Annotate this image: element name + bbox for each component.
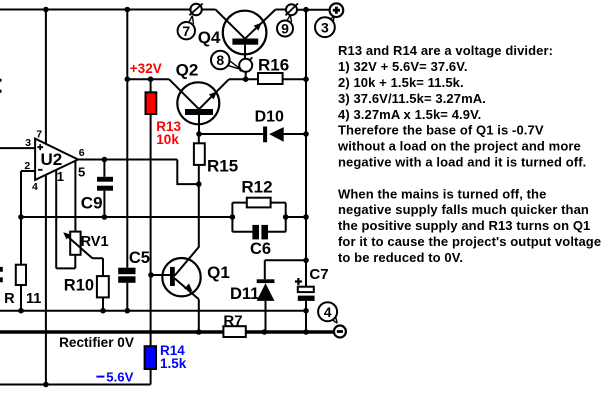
- svg-text:3: 3: [25, 137, 31, 149]
- resistor R16: [258, 73, 283, 84]
- node R10 0V: [100, 308, 106, 314]
- node R16 rail: [303, 76, 309, 82]
- node Q1 base: [148, 272, 154, 278]
- svg-text:+32V: +32V: [130, 61, 162, 76]
- wire R10 bottom lead: [102, 297, 104, 310]
- node pin2 R11: [18, 214, 24, 220]
- balloon 4: [318, 302, 337, 321]
- resistor R11: [16, 265, 26, 285]
- wire U2 pin6 output: [78, 160, 199, 185]
- label -5.6V: [96, 376, 104, 378]
- wire D10 left: [199, 133, 263, 135]
- terminal plus output: [330, 3, 344, 17]
- clipped capacitor left edge: [0, 269, 3, 280]
- wire Q1 emitter diagonal: [175, 279, 199, 300]
- svg-text:7: 7: [182, 23, 190, 39]
- svg-text:R7: R7: [223, 313, 242, 330]
- resistor R15: [194, 143, 205, 165]
- svg-text:Therefore the base of Q1 is -0: Therefore the base of Q1 is -0.7V: [338, 123, 544, 138]
- note text block: [337, 43, 601, 265]
- resistor R7: [223, 326, 245, 337]
- wire RV1 wiper to R10: [92, 258, 103, 276]
- svg-text:C5: C5: [129, 249, 150, 267]
- node feedback rail: [303, 214, 309, 220]
- node rail corner: [303, 329, 309, 335]
- node pin4 -rail: [43, 382, 49, 388]
- svg-text:D10: D10: [255, 108, 284, 125]
- resistor R14 1.5k: [145, 346, 156, 369]
- wire C5 bottom lead: [126, 283, 128, 311]
- svg-text:7: 7: [36, 128, 42, 140]
- wire TP7 to Q4: [202, 9, 216, 11]
- svg-text:Q4: Q4: [198, 28, 221, 47]
- wire C7 to D11: [265, 260, 306, 279]
- terminal minus output: [334, 326, 346, 338]
- diode D10: [263, 127, 284, 143]
- node dots: [18, 7, 309, 388]
- svg-text:4) 3.27mA x 1.5k= 4.9V.: 4) 3.27mA x 1.5k= 4.9V.: [338, 107, 481, 122]
- svg-text:5: 5: [78, 165, 85, 180]
- node C9 bottom: [102, 214, 108, 220]
- svg-text:6: 6: [79, 147, 85, 159]
- wire +32V left rail: [126, 10, 128, 268]
- node Q2 base D10: [196, 131, 202, 137]
- svg-text:Rectifier 0V: Rectifier 0V: [59, 335, 134, 350]
- svg-text:5.6V: 5.6V: [106, 369, 133, 384]
- svg-text:2) 10k + 1.5k= 11.5k.: 2) 10k + 1.5k= 11.5k.: [338, 75, 464, 90]
- svg-text:C7: C7: [309, 266, 328, 283]
- svg-text:negative with a load and it is: negative with a load and it is turned of…: [338, 155, 586, 170]
- node Q4 base R16: [243, 76, 249, 82]
- svg-text:1.5k: 1.5k: [160, 356, 187, 371]
- wire Q4 base lead: [244, 45, 246, 59]
- balloon 7: [178, 22, 195, 39]
- svg-text:R15: R15: [207, 156, 238, 175]
- node D10 rail: [303, 131, 309, 137]
- svg-text:When the mains is turned off,: When the mains is turned off, the: [338, 186, 546, 201]
- resistor R13 10k: [146, 92, 157, 114]
- svg-text:9: 9: [281, 21, 289, 37]
- wire TP8 to node: [245, 72, 247, 79]
- wire feedback line pin2: [21, 216, 232, 218]
- wire D11 anode lead: [265, 301, 267, 332]
- svg-text:2: 2: [24, 160, 30, 172]
- wire R11 leads: [20, 217, 22, 311]
- capacitor C9: [97, 177, 113, 191]
- node D11 rail: [262, 329, 268, 335]
- svg-text:the positive supply and R13 tu: the positive supply and R13 turns on Q1: [338, 218, 590, 233]
- wire U2 pin4 to -rail: [45, 175, 47, 385]
- wire Q1 base: [151, 274, 170, 276]
- op-amp plus minus: [37, 144, 43, 170]
- svg-text:negative supply falls much qui: negative supply falls much quicker than: [338, 202, 589, 217]
- svg-text:RV1: RV1: [81, 234, 109, 250]
- capacitor C6: [252, 225, 268, 240]
- svg-text:4: 4: [324, 304, 332, 320]
- wire U2 pin2 input: [21, 171, 35, 217]
- wire Q2 right lead diagonal: [199, 79, 229, 109]
- wire R12 C6 frame: [232, 203, 285, 232]
- svg-text:R13 and R14 are a voltage divi: R13 and R14 are a voltage divider:: [338, 43, 553, 58]
- wire Q4 right lead diagonal: [245, 10, 286, 39]
- balloon 3: [315, 17, 335, 37]
- clipped part left edge top: [0, 80, 2, 91]
- terminal point TP7: [190, 4, 201, 15]
- svg-text:8: 8: [216, 52, 224, 68]
- svg-text:R: R: [4, 291, 15, 307]
- wire R15 leads: [198, 134, 200, 184]
- svg-text:3: 3: [321, 19, 329, 35]
- svg-text:10k: 10k: [156, 132, 179, 147]
- svg-text:for it to cause the project's: for it to cause the project's output vol…: [338, 234, 601, 249]
- svg-text:1) 32V + 5.6V= 37.6V.: 1) 32V + 5.6V= 37.6V.: [338, 59, 468, 74]
- node R12 left: [230, 214, 236, 220]
- svg-text:Q2: Q2: [176, 60, 199, 79]
- wire top +rail: [0, 9, 190, 11]
- svg-text:C6: C6: [250, 240, 271, 258]
- wire U2 pin7 supply: [45, 10, 47, 144]
- node rail right top: [303, 7, 309, 13]
- transistor Q2: [177, 82, 219, 124]
- wire U2 pin1 to RV1 bottom: [56, 170, 75, 269]
- wire Q1 emitter to 0V rail: [198, 299, 200, 332]
- svg-text:R12: R12: [241, 178, 272, 197]
- balloon 9: [277, 21, 293, 37]
- node C7 branch: [303, 258, 309, 264]
- wire rectifier 0V rail: [0, 330, 334, 333]
- node +32V rail top: [125, 7, 131, 13]
- wire U2 pin5 to RV1 top: [74, 161, 76, 232]
- node pin7 rail top: [43, 7, 49, 13]
- wire TP9 to terminal 3: [297, 9, 330, 11]
- terminal point TP8: [240, 57, 253, 71]
- wire D10 right: [284, 133, 306, 135]
- wire R13 to Q1 base node: [150, 114, 152, 275]
- diode D11: [257, 279, 275, 301]
- wire node to R14: [150, 275, 152, 346]
- svg-text:to be reduced to 0V.: to be reduced to 0V.: [338, 250, 463, 265]
- wire R13 top lead: [150, 79, 152, 92]
- svg-text:3) 37.6V/11.5k= 3.27mA.: 3) 37.6V/11.5k= 3.27mA.: [338, 91, 486, 106]
- wire C9 leads: [103, 160, 105, 218]
- op-amp U2 triangle: [35, 139, 78, 180]
- transistor Q4: [223, 11, 267, 55]
- wire Q2 base lead: [198, 115, 200, 134]
- wire feedback to rail: [286, 216, 306, 218]
- resistor R10: [97, 276, 109, 297]
- svg-text:without a load on the project: without a load on the project and more: [337, 139, 581, 154]
- svg-text:11: 11: [26, 291, 41, 307]
- node C9 pin6: [102, 157, 108, 163]
- wire R14 bottom lead: [150, 369, 152, 385]
- wire R16 to rail: [283, 78, 306, 80]
- wire Q2 left lead diagonal: [169, 79, 199, 109]
- wire 0V sense line: [0, 310, 306, 312]
- arrow Q2 emitter: [209, 92, 217, 100]
- terminal point TP9: [286, 4, 297, 15]
- node R11 0V: [18, 308, 24, 314]
- capacitor C7 electrolytic: [298, 287, 314, 292]
- svg-text:Q1: Q1: [207, 263, 230, 282]
- wire +32V node: [127, 78, 169, 80]
- svg-text:U2: U2: [41, 150, 63, 169]
- node +32V R13: [125, 76, 131, 82]
- svg-text:R10: R10: [64, 277, 94, 295]
- node Q1 emitter rail: [196, 329, 202, 335]
- wire -5.6V rail: [0, 384, 151, 386]
- capacitor C5: [118, 268, 135, 283]
- arrow Q4 emitter: [254, 23, 262, 31]
- wire Q2 emitter to R16: [229, 78, 258, 80]
- svg-text:D11: D11: [230, 285, 259, 303]
- transistor Q1: [162, 258, 200, 296]
- svg-text:4: 4: [32, 181, 38, 193]
- wire U2 pin3 input: [0, 147, 35, 149]
- node R15 Q1 collector: [196, 181, 202, 187]
- resistor R12: [247, 198, 271, 208]
- wire Q1 collector: [175, 184, 199, 275]
- potentiometer RV1: [70, 232, 80, 255]
- svg-text:1: 1: [57, 169, 64, 184]
- balloon 8: [211, 51, 230, 70]
- node C7 0V: [303, 308, 309, 314]
- wire Q4 left lead diagonal: [216, 10, 246, 39]
- arrow Q1 emitter: [184, 284, 192, 292]
- wire right output rail: [305, 10, 307, 332]
- node C5 0V: [125, 308, 131, 314]
- node R12 right: [283, 214, 289, 220]
- svg-text:R16: R16: [258, 56, 289, 75]
- svg-text:C9: C9: [81, 194, 103, 213]
